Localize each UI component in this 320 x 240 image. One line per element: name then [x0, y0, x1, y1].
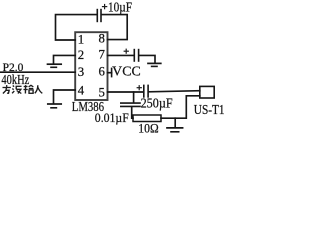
ground G4 output	[174, 118, 176, 127]
ground C2	[148, 62, 161, 64]
wire pin2 to ground	[54, 55, 76, 63]
capacitor C1 10uF left plate	[96, 10, 98, 22]
svg-text:0.01µF: 0.01µF	[95, 110, 129, 125]
svg-text:US-T1: US-T1	[194, 103, 225, 118]
wire pin6 to VCC	[108, 72, 112, 74]
plus sign C1	[102, 4, 107, 9]
capacitor C2 bypass right plate	[138, 50, 140, 61]
wire pin1 to top loop left	[56, 15, 97, 40]
ground pin4	[48, 103, 61, 105]
capacitor C4 top plate	[121, 102, 140, 104]
wire pin4 to ground	[54, 90, 76, 103]
svg-text:3: 3	[78, 65, 84, 79]
svg-text:2: 2	[78, 48, 84, 62]
capacitor C2 bypass left plate	[133, 50, 135, 61]
svg-text:40kHz: 40kHz	[1, 72, 29, 87]
svg-text:VCC: VCC	[112, 64, 141, 79]
terminal tick VCC	[111, 68, 113, 76]
char shu	[23, 85, 33, 93]
wire C3 to transducer	[149, 91, 200, 92]
svg-text:8: 8	[99, 32, 105, 46]
svg-text:1: 1	[78, 33, 84, 47]
label fang-bo-shu-ru (square wave input) hand-drawn glyphs	[3, 85, 43, 93]
ground pin2	[48, 63, 62, 65]
svg-text:10Ω: 10Ω	[138, 121, 158, 136]
capacitor C4 bottom stub to resistor	[132, 107, 133, 118]
capacitor C3 250uF right plate	[147, 85, 149, 97]
char fang	[3, 85, 11, 93]
svg-text:7: 7	[99, 47, 106, 61]
capacitor C4 bottom plate	[121, 105, 140, 107]
char ru	[35, 85, 42, 93]
svg-text:4: 4	[78, 83, 85, 97]
svg-text:6: 6	[99, 64, 106, 78]
plus sign C3	[137, 85, 142, 90]
char bo	[12, 86, 21, 94]
wire pin5 output	[108, 91, 144, 93]
transducer US-T1 body	[200, 86, 214, 98]
capacitor C3 250uF left plate	[143, 85, 145, 97]
svg-text:250µF: 250µF	[141, 95, 173, 110]
svg-text:10µF: 10µF	[108, 0, 132, 14]
plus sign C2	[124, 49, 129, 54]
wire pin7 to bypass cap	[108, 54, 134, 56]
wire pin3 input	[0, 71, 75, 73]
capacitor C1 10uF right plate	[100, 10, 102, 22]
wire C2 to ground	[139, 55, 155, 62]
wire transducer return	[161, 96, 200, 118]
resistor R1 10ohm body	[133, 115, 161, 122]
svg-text:5: 5	[99, 86, 105, 100]
wire top loop right	[102, 15, 127, 40]
op-amp U1 LM386 body	[75, 32, 107, 100]
capacitor C4 0.01uF top stub	[133, 92, 135, 102]
